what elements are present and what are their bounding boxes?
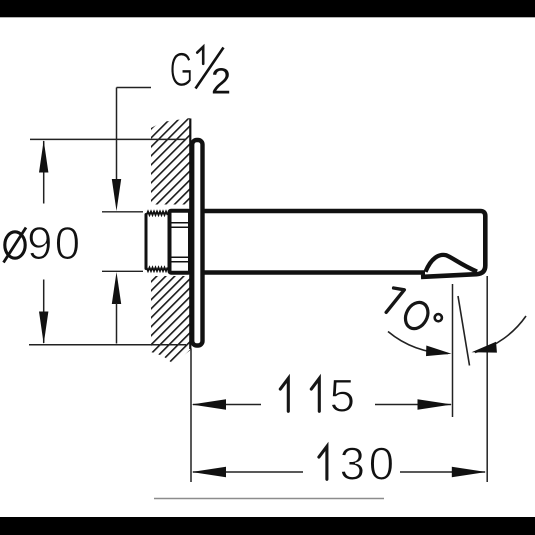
G1/2 arrow down (to thread top) [112, 179, 121, 211]
dia90 top extension line [30, 138, 185, 140]
130 right extension line [486, 276, 488, 482]
nut chamfer line lower 2 [172, 261, 189, 263]
thread bottom witness line [102, 270, 145, 272]
G1/2 leader vertical + upper arrow line [116, 88, 118, 183]
wall face line [189, 119, 191, 350]
dia90 dimension line lower segment [43, 280, 45, 344]
thread G1/2 teeth top [147, 212, 168, 216]
10deg arc right branch [475, 316, 526, 353]
bottom letterbox bar [0, 517, 535, 535]
spout tube bottom edge [203, 270, 425, 275]
svg-text:G: G [170, 43, 194, 97]
top letterbox bar [0, 0, 535, 17]
gray base line under 130 [154, 498, 384, 500]
115 right extension line (spout tip vertical) [452, 284, 454, 417]
wall hatching [145, 110, 200, 370]
10deg arc left branch [388, 332, 448, 354]
thread G1/2 teeth bottom [147, 268, 168, 272]
dia90 dimension line upper segment [43, 141, 45, 204]
dimension text 115 digits 1 1 [280, 378, 319, 411]
115 arrow right [418, 399, 453, 410]
diameter symbol of dia90 [5, 232, 25, 258]
degree symbol [435, 314, 442, 321]
G1/2 lower line [116, 303, 118, 344]
10deg arc arrow left [425, 345, 452, 359]
G1/2 arrow up (to thread bottom) [112, 272, 121, 304]
nut chamfer line lower 1 [172, 256, 189, 258]
130 arrow right [452, 467, 487, 478]
dia90 arrow up [39, 140, 48, 172]
thread top witness line [102, 211, 145, 213]
nut chamfer line upper 1 [172, 222, 189, 224]
G1/2 leader horizontal [117, 87, 152, 89]
fraction slash [196, 48, 224, 89]
svg-text:90: 90 [27, 217, 82, 269]
spout tube top edge + right end [203, 211, 485, 277]
svg-text:2: 2 [211, 61, 231, 102]
angle text 10 digit 1 [386, 288, 404, 312]
spout outlet wave lip [426, 255, 478, 272]
115 arrow left [192, 399, 227, 410]
115/130 left extension line (wall face) [190, 349, 192, 483]
130 dimension line right segment [400, 471, 485, 473]
115 dimension line right segment [375, 404, 451, 406]
thread left end cap [145, 215, 148, 269]
dia90 bottom extension line [29, 344, 186, 346]
115 dimension line left segment [193, 404, 261, 406]
flange (round escutcheon plate) [192, 140, 202, 346]
10deg slanted reference line [458, 296, 470, 366]
fraction numerator 1 [197, 47, 203, 64]
nut chamfer line upper 2 [172, 226, 189, 228]
dimension text 130 digit 1 [319, 446, 327, 479]
fitting background (clears hatch) [143, 205, 190, 277]
angle text 10 digit 0 [401, 298, 432, 332]
dia90 arrow down [39, 312, 48, 345]
nut body [170, 211, 191, 273]
svg-text:5: 5 [330, 370, 356, 422]
130 arrow left [192, 467, 227, 478]
10deg arc arrow right [470, 342, 497, 357]
130 dimension line left segment [193, 471, 303, 473]
svg-text:30: 30 [340, 438, 398, 490]
